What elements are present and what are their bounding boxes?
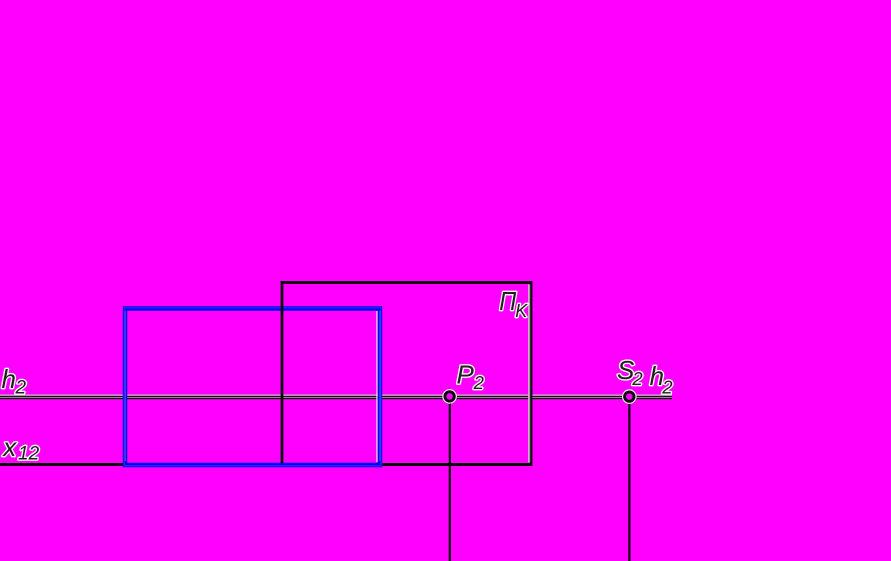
svg-text:h: h xyxy=(2,364,16,394)
svg-text:2: 2 xyxy=(631,368,643,389)
svg-text:P: P xyxy=(457,360,475,390)
svg-text:12: 12 xyxy=(18,444,40,465)
svg-text:K: K xyxy=(515,301,528,321)
svg-text:x: x xyxy=(1,432,17,462)
svg-text:2: 2 xyxy=(661,376,673,397)
svg-text:Π: Π xyxy=(499,286,516,316)
svg-text:2: 2 xyxy=(473,372,485,393)
svg-text:2: 2 xyxy=(15,378,27,399)
